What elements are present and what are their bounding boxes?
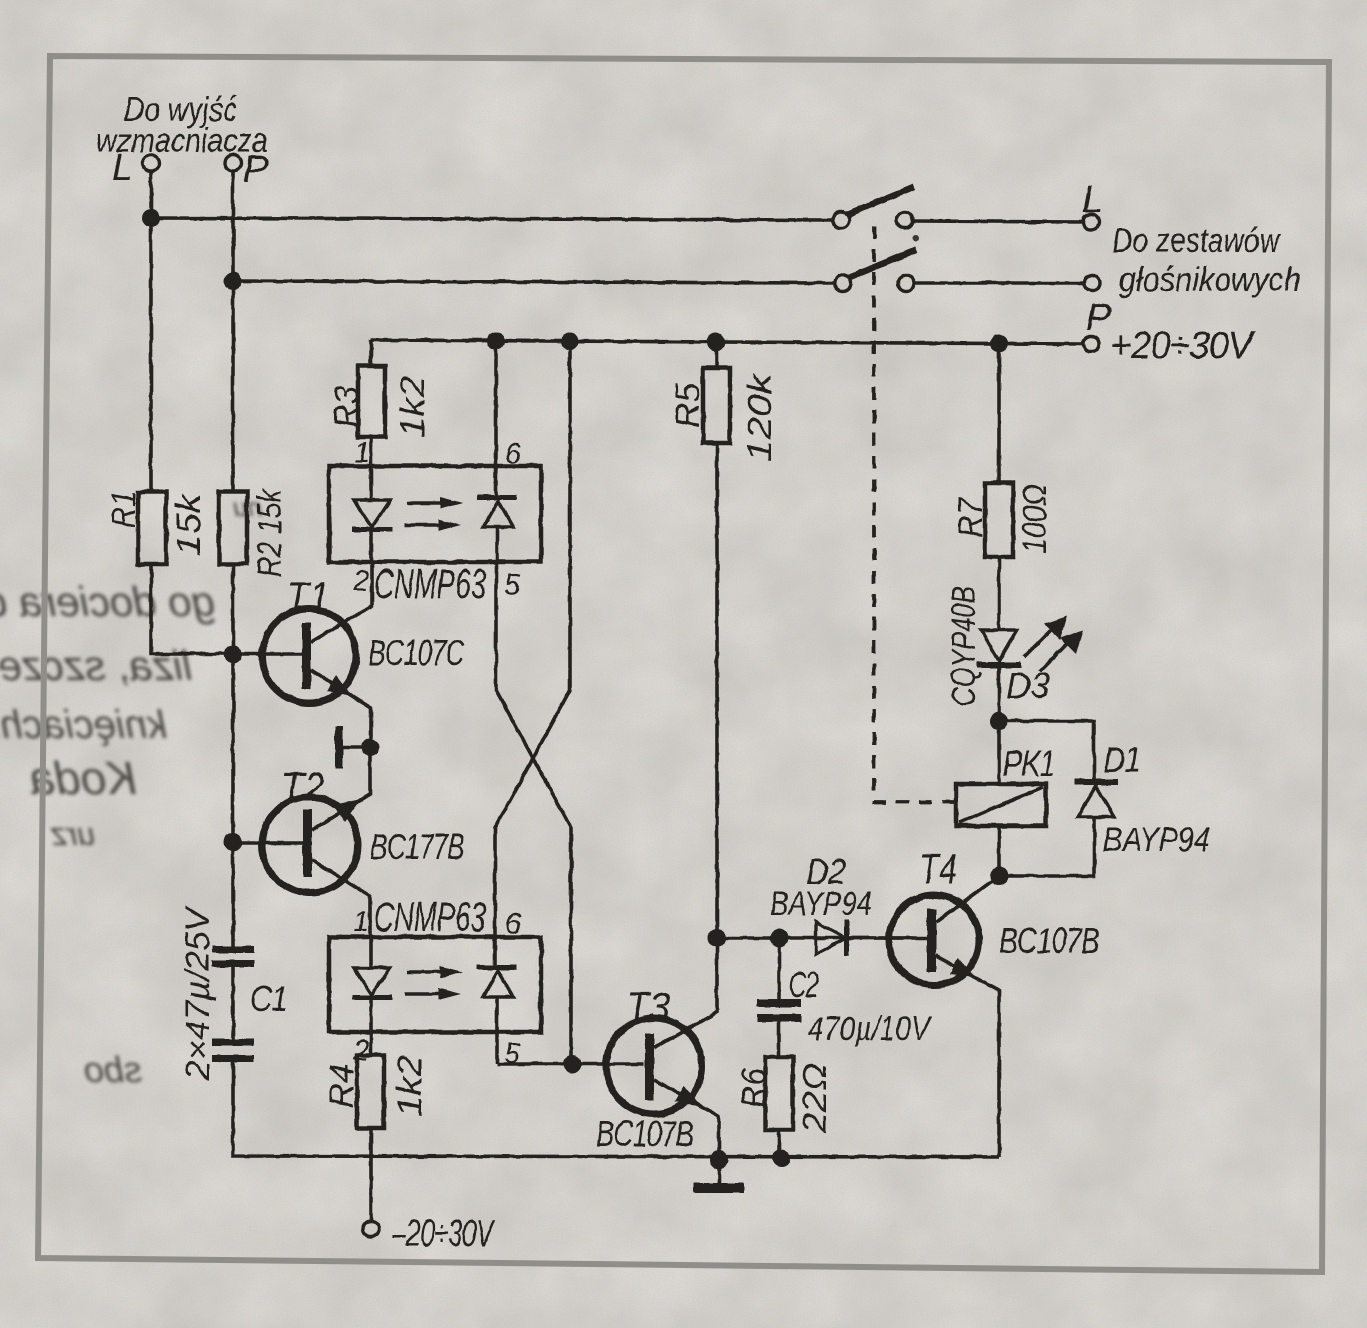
node T3 base — [563, 1055, 581, 1073]
R5 value 120k — [741, 372, 779, 462]
transistor T2 BC177B — [233, 747, 464, 937]
node rail x716 — [707, 333, 725, 351]
svg-text:R6: R6 — [735, 1068, 773, 1108]
node T2 base — [224, 833, 242, 851]
wire C1 to bottom rail — [233, 1062, 999, 1157]
svg-text:R1: R1 — [105, 490, 143, 528]
wire to D1 branch — [999, 721, 1094, 781]
node D3 / relay / D1 — [990, 712, 1008, 730]
svg-text:1: 1 — [353, 906, 369, 938]
R1 designator label — [105, 490, 143, 528]
diode D1 BAYP94 — [999, 739, 1210, 876]
R3 designator label — [328, 386, 366, 428]
label "Do wyjść wzmacniacza" — [96, 91, 268, 160]
svg-text:1: 1 — [354, 437, 370, 469]
+V top rail — [371, 340, 1083, 344]
node T1 emitter / T2 emitter — [361, 738, 379, 756]
resistor R7 100Ω — [997, 343, 1001, 483]
svg-text:P: P — [243, 149, 269, 191]
wire R3 to pin1 — [369, 437, 373, 466]
terminal L (speakers) — [1083, 214, 1099, 230]
svg-text:BC107C: BC107C — [368, 632, 465, 673]
svg-text:P: P — [1086, 297, 1112, 339]
U1 light arrows — [407, 501, 441, 505]
LED D3 CQYP40B — [945, 586, 1083, 721]
R6 value 22Ω — [796, 1063, 834, 1134]
resistor R6 22Ω — [765, 1057, 793, 1130]
U1 photodiode — [494, 466, 498, 499]
capacitor C2 470µ/10V — [757, 938, 933, 1057]
svg-text:knięciach.: knięciach. — [0, 703, 167, 747]
R2 designator and value label — [251, 487, 289, 577]
svg-text:R3: R3 — [328, 386, 366, 428]
relay coil PK1 — [956, 721, 1055, 876]
U2 LED — [369, 937, 373, 968]
wire crossing: +rail down to U2 pin6 — [495, 341, 570, 937]
svg-text:T1: T1 — [286, 573, 330, 620]
wire R1 to T1 base — [151, 564, 303, 654]
svg-text:BAYP94: BAYP94 — [770, 885, 872, 923]
R3 value 1k2 — [394, 376, 432, 438]
terminal P (speakers) — [1084, 275, 1100, 291]
wire R6 to bottom rail — [777, 1130, 781, 1158]
optocoupler U1 CNMP63 (top) — [329, 466, 541, 562]
resistor R2 — [219, 492, 247, 564]
svg-text:R4: R4 — [323, 1064, 361, 1108]
svg-text:C2: C2 — [789, 964, 819, 1005]
C1 value 2×47µ/25V — [179, 905, 217, 1081]
node T1 base — [224, 645, 242, 663]
svg-text:R5: R5 — [669, 383, 707, 428]
svg-text:2×47µ/25V: 2×47µ/25V — [179, 905, 217, 1081]
wire P rail to switch — [233, 281, 835, 283]
wire R4 to -V terminal — [369, 1128, 373, 1221]
wire R5 to T3 collector — [715, 443, 719, 938]
R4 value 1k2 — [391, 1055, 429, 1117]
svg-text:1k2: 1k2 — [394, 376, 432, 438]
wire T3 base line — [497, 1062, 644, 1066]
svg-text:2: 2 — [352, 565, 369, 597]
svg-text:BC107B: BC107B — [999, 920, 1099, 961]
transistor T3 BC107B — [596, 938, 719, 1160]
svg-text:liza, szczegó: liza, szczegó — [0, 642, 192, 689]
wire U1 pin6 from +rail — [494, 341, 498, 466]
svg-text:BC177B: BC177B — [370, 826, 464, 867]
svg-text:BC107B: BC107B — [596, 1113, 693, 1154]
svg-text:22Ω: 22Ω — [796, 1063, 834, 1134]
node rail x496 — [487, 332, 505, 350]
svg-text:T4: T4 — [919, 845, 957, 892]
svg-text:R7: R7 — [952, 497, 990, 538]
optocoupler U2 CNMP63 (bottom) — [329, 937, 541, 1032]
node rail-R3 — [369, 340, 373, 366]
ink speck — [913, 235, 919, 241]
resistor R4 — [369, 1032, 373, 1055]
U2 light arrows — [407, 970, 441, 974]
svg-text:15k: 15k — [170, 492, 208, 556]
svg-text:CNMP63: CNMP63 — [374, 893, 486, 940]
svg-text:głośnikowych: głośnikowych — [1119, 261, 1301, 299]
svg-text:D1: D1 — [1104, 739, 1140, 780]
svg-text:6: 6 — [505, 438, 522, 470]
svg-text:T2: T2 — [281, 763, 325, 810]
svg-text:470µ/10V: 470µ/10V — [808, 1010, 933, 1048]
svg-text:–20÷30V: –20÷30V — [391, 1213, 496, 1255]
U2 photodiode — [493, 937, 497, 969]
svg-text:5: 5 — [504, 569, 521, 601]
terminal +20÷30V — [1083, 336, 1099, 352]
terminal -20÷30V — [363, 1221, 379, 1237]
wire collector rail to D2 and T4 base — [717, 936, 912, 940]
resistor R5 — [715, 342, 719, 368]
wire P vertical down to R2 — [231, 171, 235, 492]
dashed mechanical link to relay — [874, 226, 957, 802]
svg-text:1k2: 1k2 — [391, 1055, 429, 1117]
svg-text:+20÷30V: +20÷30V — [1110, 325, 1257, 367]
node P rail junction — [224, 272, 242, 290]
svg-text:120k: 120k — [741, 372, 779, 462]
svg-text:CNMP63: CNMP63 — [374, 560, 486, 607]
wire crossing: U1 pin5 down to T3 base node — [496, 562, 571, 1064]
node L rail junction — [142, 209, 160, 227]
node rail x999 — [990, 334, 1008, 352]
svg-text:R2 15k: R2 15k — [251, 487, 289, 577]
ground — [717, 1160, 721, 1185]
wire L vertical down to R1 — [149, 171, 153, 492]
svg-text:CQYP40B: CQYP40B — [945, 586, 983, 706]
node T3 collector — [708, 929, 726, 947]
resistor R3 — [358, 366, 385, 437]
transistor T1 BC107C — [262, 562, 465, 747]
svg-text:BAYP94: BAYP94 — [1103, 821, 1210, 859]
resistor R1 — [138, 492, 166, 564]
R6 designator label — [735, 1068, 773, 1108]
bleed-through text from reverse page — [0, 492, 262, 1090]
relay contact switch L — [833, 212, 849, 228]
wire R2 down through nodes to C1 — [231, 564, 235, 947]
transistor T4 BC107B — [849, 845, 1099, 1157]
R4 designator label — [323, 1064, 361, 1108]
svg-text:PK1: PK1 — [1003, 743, 1055, 784]
svg-text:Do zestawów: Do zestawów — [1112, 222, 1282, 260]
R7 value 100Ω — [1016, 484, 1054, 554]
svg-text:T3: T3 — [626, 983, 670, 1030]
svg-text:2: 2 — [352, 1035, 369, 1067]
node C2 tap — [770, 929, 788, 947]
wire switch P to terminal — [914, 281, 1084, 285]
diode D2 BAYP94 — [770, 851, 872, 956]
U1 LED — [369, 466, 373, 500]
svg-text:L: L — [1082, 179, 1102, 221]
R1 value 15k — [170, 492, 208, 556]
svg-text:C1: C1 — [250, 978, 287, 1019]
capacitor C1 (2×47µ/25V) — [179, 905, 287, 1081]
svg-text:100Ω: 100Ω — [1016, 484, 1054, 554]
wire L rail to switch — [151, 218, 833, 220]
node R6 ground — [772, 1149, 790, 1167]
relay contact switch P — [835, 275, 851, 291]
test point bar — [335, 726, 343, 768]
wire switch L to terminal — [913, 221, 1083, 222]
svg-text:D3: D3 — [1006, 665, 1050, 706]
node rail x570 — [561, 332, 579, 350]
R5 designator label — [669, 383, 707, 428]
svg-text:urz: urz — [51, 816, 95, 852]
svg-text:L: L — [112, 147, 132, 189]
svg-text:sbo: sbo — [84, 1049, 142, 1090]
svg-text:go dociera do: go dociera do — [0, 578, 215, 625]
node ground tap — [710, 1151, 728, 1169]
node relay bottom / T4 collector — [990, 867, 1008, 885]
svg-text:6: 6 — [505, 908, 522, 940]
R7 designator label — [952, 497, 990, 538]
